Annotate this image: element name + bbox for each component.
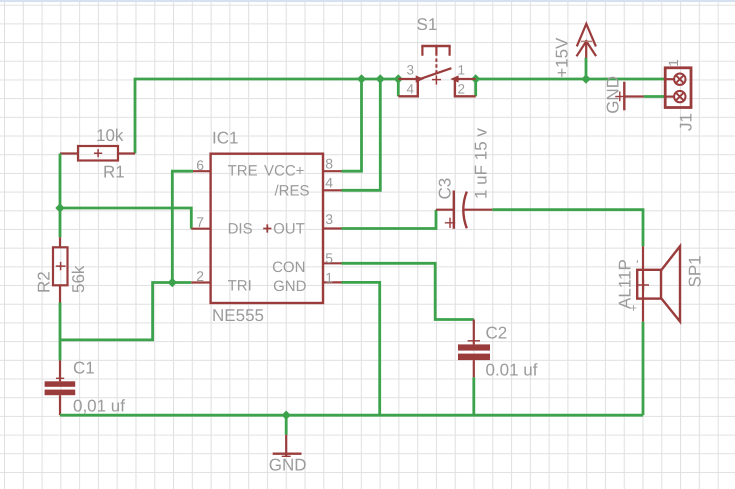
svg-text:TRI: TRI <box>228 277 252 294</box>
wire OUT to C3 <box>342 210 437 229</box>
wire VCC+ drop <box>342 79 362 171</box>
svg-text:1: 1 <box>458 63 466 78</box>
junction node GND <box>282 411 291 420</box>
wire R1 left to R2 <box>59 154 62 238</box>
wire top bus right <box>476 78 666 81</box>
wire pin1 to bus <box>342 282 380 415</box>
svg-text:8: 8 <box>325 156 333 172</box>
wire +15V stem <box>585 58 588 79</box>
resistor R1 <box>60 126 135 182</box>
svg-text:IC1: IC1 <box>212 129 238 148</box>
junction node S1 pin3 <box>394 74 403 83</box>
svg-text:NE555: NE555 <box>212 306 264 325</box>
wire node to DIS <box>60 208 191 229</box>
svg-text:TRE: TRE <box>228 163 258 180</box>
speaker SP1 <box>616 246 705 322</box>
wire S1 right drop <box>474 79 477 96</box>
wire branch to TRI <box>60 283 191 340</box>
wire R2 to C1 <box>59 303 62 361</box>
connector J1 <box>665 59 695 131</box>
svg-text:56k: 56k <box>69 265 88 293</box>
junction node VCC <box>357 74 366 83</box>
capacitor C1 <box>45 359 126 416</box>
wire top bus left <box>135 79 398 154</box>
svg-text:1: 1 <box>666 59 681 67</box>
svg-text:GND: GND <box>273 278 307 295</box>
wire CON to C2 <box>342 263 474 319</box>
wire /RES drop <box>342 79 381 190</box>
svg-text:-: - <box>630 260 644 264</box>
toolbar edge <box>0 0 735 2</box>
wire C3 to SP1 <box>492 210 643 247</box>
switch S1 <box>398 15 475 97</box>
junction node S1 pin1 <box>471 74 480 83</box>
svg-text:S1: S1 <box>417 15 438 34</box>
wire TRE drop <box>172 171 193 282</box>
op-amp timer IC U1 (IC1 NE555) <box>191 129 341 326</box>
junction node TRI <box>168 278 177 287</box>
svg-text:GND: GND <box>269 456 307 475</box>
svg-text:R2: R2 <box>34 271 53 293</box>
capacitor C3 <box>436 128 493 229</box>
svg-text:C3: C3 <box>436 178 455 200</box>
power +15V <box>553 24 597 78</box>
svg-text:3: 3 <box>325 211 333 227</box>
svg-text:C1: C1 <box>73 359 95 378</box>
wire GND drop <box>285 415 288 435</box>
wire GND to J1 <box>644 95 666 98</box>
junction node +15V <box>581 74 590 83</box>
svg-text:6: 6 <box>196 157 204 173</box>
svg-text:R1: R1 <box>103 163 125 182</box>
wire C2 to bus <box>472 377 475 415</box>
svg-text:J1: J1 <box>676 113 695 131</box>
svg-text:10k: 10k <box>96 126 124 145</box>
wire SP1 to bus <box>642 322 645 415</box>
svg-text:/RES: /RES <box>275 182 310 199</box>
junction node R1/R2 <box>55 203 64 212</box>
svg-text:4: 4 <box>325 174 333 190</box>
svg-text:GND: GND <box>604 76 623 114</box>
svg-text:0.01 uf: 0.01 uf <box>486 361 538 380</box>
svg-text:2: 2 <box>458 82 466 97</box>
svg-text:1 uF 15 v: 1 uF 15 v <box>472 128 491 199</box>
svg-text:DIS: DIS <box>228 221 253 238</box>
svg-text:+: + <box>627 304 641 311</box>
wire S1 left drop <box>397 79 400 96</box>
svg-text:3: 3 <box>407 63 415 78</box>
junction node RES <box>376 74 385 83</box>
svg-text:C2: C2 <box>486 324 508 343</box>
svg-text:CON: CON <box>272 259 305 276</box>
svg-text:VCC+: VCC+ <box>264 163 305 180</box>
svg-text:4: 4 <box>407 82 415 97</box>
svg-text:2: 2 <box>196 268 204 284</box>
capacitor C2 <box>458 320 538 380</box>
svg-text:SP1: SP1 <box>686 255 705 287</box>
svg-text:AL11P: AL11P <box>616 259 635 309</box>
svg-text:1: 1 <box>325 269 333 285</box>
svg-text:+15V: +15V <box>553 37 572 78</box>
ground GND at J1 <box>604 76 644 114</box>
svg-text:5: 5 <box>325 250 333 266</box>
resistor R2 <box>34 237 88 302</box>
svg-text:0,01 uf: 0,01 uf <box>73 397 125 416</box>
svg-text:7: 7 <box>196 214 204 230</box>
wire bottom bus <box>60 414 643 417</box>
svg-text:OUT: OUT <box>273 221 305 238</box>
ground GND bottom <box>269 435 307 475</box>
